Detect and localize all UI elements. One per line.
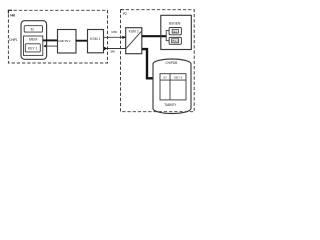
- svg-text:KEY 2: KEY 2: [174, 76, 183, 80]
- svg-text:KEY 1: KEY 1: [28, 46, 38, 50]
- branch bracket to BS boxes: [166, 31, 169, 41]
- table header underline: [160, 79, 186, 81]
- table inside cylinder: [160, 74, 186, 100]
- svg-text:340: 340: [110, 50, 115, 54]
- ID box: [24, 26, 42, 32]
- BS2 box: [169, 37, 181, 44]
- svg-text:M30: M30: [111, 30, 117, 34]
- BSGEN box: [161, 15, 192, 49]
- svg-text:KSM 2: KSM 2: [129, 29, 139, 33]
- thick wire KSM2 to CHIPDB: [142, 49, 153, 78]
- thick bus MEM to CHIP I/S: [43, 39, 58, 41]
- svg-text:CHIP I/S 2: CHIP I/S 2: [58, 39, 71, 43]
- P2 box corner mark: [121, 10, 125, 13]
- dashed enclosure P2: [121, 10, 195, 112]
- H6 box corner mark: [8, 10, 12, 13]
- svg-text:BSGEN: BSGEN: [169, 21, 181, 25]
- selector diagonal inside KSM2: [126, 31, 141, 48]
- chip module CHIP1 rounded box: [21, 21, 47, 60]
- MEM box: [24, 36, 43, 55]
- svg-text:CHIP1: CHIP1: [9, 38, 18, 42]
- svg-text:MEM: MEM: [29, 37, 37, 41]
- KSM 1 box: [88, 30, 104, 53]
- dashed enclosure H6: [8, 10, 107, 63]
- svg-text:P2: P2: [123, 12, 127, 16]
- database cylinder CHIPDB: [153, 59, 191, 114]
- svg-text:BS: BS: [173, 29, 177, 33]
- thick wire CHIP I/S to KSM1: [76, 40, 88, 42]
- svg-text:KSM 1: KSM 1: [90, 37, 101, 41]
- wire M30 (KSM1 to KSM2 top): [104, 36, 126, 38]
- svg-text:TABKEY: TABKEY: [164, 103, 177, 107]
- KSM 2 box: [126, 28, 142, 54]
- table divider: [169, 74, 171, 100]
- svg-text:CHIPDB: CHIPDB: [165, 61, 178, 65]
- svg-text:BS2: BS2: [173, 39, 179, 43]
- thin arrow CHIP I/S back to MEM: [46, 45, 58, 47]
- BS box: [169, 28, 181, 35]
- interface box CHIP I/S 2: [58, 30, 77, 54]
- thick wire KSM2 to BSGEN: [142, 35, 166, 37]
- wire 340 (KSM1 to KSM2 bottom): [104, 48, 126, 50]
- KEY 1 box: [25, 44, 40, 52]
